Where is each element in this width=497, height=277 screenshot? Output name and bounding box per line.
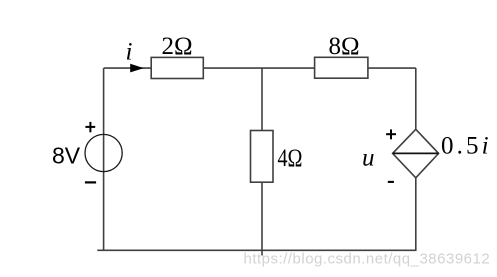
svg-text:8V: 8V — [52, 143, 81, 169]
current arrow for i — [130, 64, 144, 73]
polarity plus of dependent source — [386, 129, 396, 139]
resistor R2 8ohm — [315, 57, 368, 78]
dependent source 0.5i diamond — [393, 129, 439, 178]
wire top left horizontal — [104, 67, 152, 69]
wire left vertical — [103, 68, 105, 251]
svg-text:0.5i: 0.5i — [441, 133, 492, 160]
wire middle vertical lower — [261, 182, 263, 255]
dependent source internal line — [393, 152, 439, 154]
svg-text:2Ω: 2Ω — [162, 33, 193, 60]
wire bottom horizontal — [97, 249, 416, 251]
wire middle vertical upper — [261, 68, 263, 130]
voltage source V1 8V circle — [85, 134, 122, 171]
svg-text:8Ω: 8Ω — [329, 33, 360, 60]
wire right vertical upper — [415, 68, 417, 129]
wire 8ohm to right corner — [368, 67, 416, 69]
svg-text:4Ω: 4Ω — [278, 145, 303, 172]
wire right vertical lower — [415, 178, 417, 251]
svg-text:https://blog.csdn.net/qq_38639: https://blog.csdn.net/qq_38639612 — [244, 250, 491, 267]
wire 2ohm to 8ohm — [203, 67, 314, 69]
resistor R3 4ohm — [251, 131, 274, 183]
svg-text:u: u — [362, 144, 375, 171]
svg-text:i: i — [126, 39, 133, 66]
polarity minus of 8V source — [85, 181, 96, 183]
polarity minus of dependent source — [388, 181, 394, 183]
polarity plus of 8V source — [85, 122, 95, 132]
resistor R1 2ohm — [151, 57, 203, 78]
